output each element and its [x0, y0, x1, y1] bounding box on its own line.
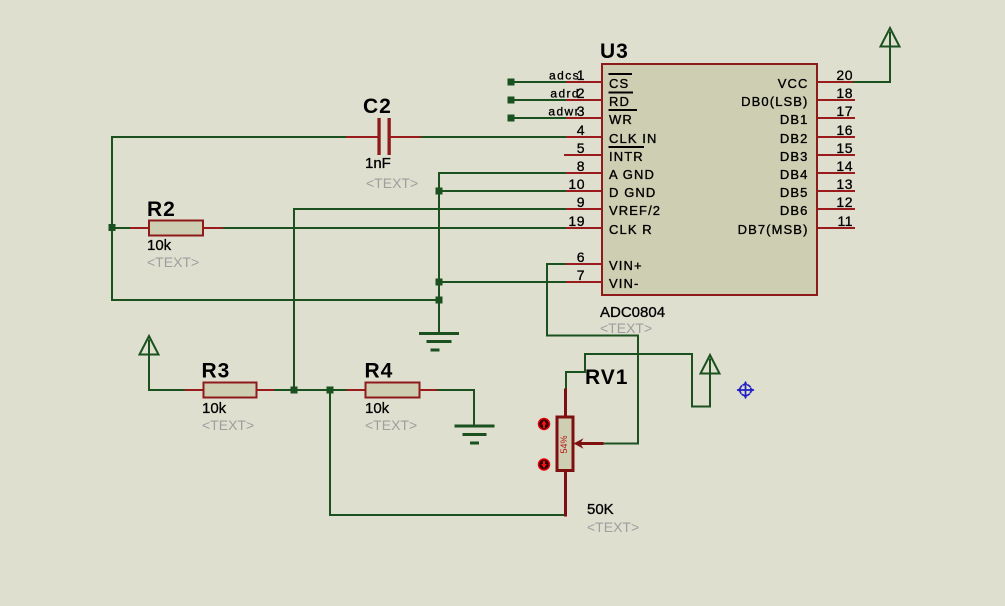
- wire VREF/2 pin 9 to resistor divider: [294, 209, 565, 390]
- svg-text:R2: R2: [147, 198, 176, 221]
- U3 pin 12 DB6 stub: [818, 208, 854, 210]
- svg-text:DB3: DB3: [780, 149, 809, 164]
- svg-text:20: 20: [836, 67, 853, 83]
- U3 pin name INTR with overline: [609, 147, 644, 164]
- U3 pin 18 DB0 stub: [818, 99, 854, 101]
- wire R2 left to rail: [112, 227, 131, 229]
- resistor R4: [348, 383, 439, 398]
- power symbol +V at R3: [140, 336, 159, 390]
- capacitor C2: [347, 118, 420, 155]
- svg-text:WR: WR: [609, 112, 633, 127]
- svg-text:ADC0804: ADC0804: [600, 304, 665, 321]
- terminal square adrd: [508, 97, 515, 104]
- svg-text:DB6: DB6: [780, 203, 809, 218]
- IC U3 body (ADC0804): [602, 64, 817, 295]
- svg-text:VIN-: VIN-: [609, 276, 639, 291]
- wire adwr to pin 3: [511, 117, 565, 119]
- svg-text:50K: 50K: [587, 501, 614, 518]
- wire R4 right to ground: [438, 390, 474, 426]
- wire left vertical rail x=112: [111, 137, 113, 300]
- wire power to R3 left: [149, 389, 186, 391]
- svg-text:D GND: D GND: [609, 185, 656, 200]
- svg-text:15: 15: [836, 140, 853, 156]
- wire RV1 top to power: [566, 354, 710, 407]
- ground symbol under rail x=439: [421, 334, 458, 351]
- svg-text:10k: 10k: [147, 237, 172, 254]
- svg-text:R3: R3: [202, 360, 231, 383]
- U3 pin 19 CLK R stub: [565, 227, 601, 229]
- RV1 wiper arrow: [574, 438, 603, 448]
- wire VCC pin 20 to power: [854, 33, 890, 83]
- svg-text:RD: RD: [609, 94, 630, 109]
- U3 pin name CS with overline: [609, 74, 631, 91]
- svg-text:INTR: INTR: [609, 149, 644, 164]
- svg-text:1nF: 1nF: [365, 155, 391, 172]
- terminal square adcs: [508, 79, 515, 86]
- wire A GND pin 8 to ground rail: [439, 173, 565, 191]
- U3 pin 8 A GND stub: [565, 172, 601, 174]
- U3 pin 2 RD stub: [565, 99, 601, 101]
- wire R3 right to R4 left: [275, 389, 348, 391]
- svg-text:18: 18: [836, 85, 853, 101]
- U3 pin 11 DB7 stub: [818, 227, 854, 229]
- svg-text:19: 19: [568, 213, 585, 229]
- wire D GND pin 10 to ground rail: [439, 190, 565, 192]
- svg-text:17: 17: [836, 103, 853, 119]
- svg-text:U3: U3: [600, 40, 629, 63]
- origin marker (blue crosshair): [738, 383, 753, 398]
- svg-text:adwr: adwr: [548, 105, 580, 119]
- potentiometer RV1: [557, 390, 573, 515]
- svg-text:54%: 54%: [559, 435, 569, 453]
- svg-text:CS: CS: [609, 76, 629, 91]
- svg-text:DB5: DB5: [780, 185, 809, 200]
- junction RV1 bottom tap at divider: [327, 387, 334, 394]
- junction VREF tap at divider: [291, 387, 298, 394]
- terminal square adwr: [508, 115, 515, 122]
- svg-text:A GND: A GND: [609, 167, 655, 182]
- resistor R3: [186, 383, 275, 398]
- svg-text:8: 8: [577, 158, 585, 174]
- svg-text:<TEXT>: <TEXT>: [600, 320, 652, 336]
- U3 pin 1 CS stub: [565, 81, 601, 83]
- U3 pin 14 DB4 stub: [818, 172, 854, 174]
- svg-text:VCC: VCC: [778, 76, 809, 91]
- svg-text:C2: C2: [363, 95, 392, 118]
- svg-text:adcs: adcs: [549, 69, 580, 83]
- svg-text:10k: 10k: [202, 400, 227, 417]
- junction at VIN- rail: [436, 279, 443, 286]
- wire adcs to pin 1: [511, 81, 565, 83]
- ground symbol at R4: [456, 426, 493, 443]
- RV1 decrement button: [539, 459, 550, 470]
- svg-text:<TEXT>: <TEXT>: [587, 519, 639, 535]
- junction at bottom horizontal rail: [436, 297, 443, 304]
- junction at D GND rail: [436, 188, 443, 195]
- svg-text:14: 14: [836, 158, 853, 174]
- svg-text:CLK IN: CLK IN: [609, 131, 658, 146]
- svg-text:VIN+: VIN+: [609, 258, 643, 273]
- wire C2 left plate to left vertical rail: [112, 136, 347, 138]
- svg-text:16: 16: [836, 122, 853, 138]
- svg-text:RV1: RV1: [585, 366, 628, 389]
- svg-text:13: 13: [836, 176, 853, 192]
- resistor R2: [131, 221, 222, 236]
- svg-text:6: 6: [577, 249, 585, 265]
- U3 pin 16 DB2 stub: [818, 136, 854, 138]
- U3 pin 17 DB1 stub: [818, 117, 854, 119]
- wire VIN+ pin 6 down to RV1 wiper: [547, 264, 638, 444]
- U3 pin 5 INTR stub: [565, 154, 601, 156]
- svg-text:7: 7: [577, 267, 585, 283]
- U3 pin 20 VCC stub: [818, 81, 854, 83]
- U3 pin 9 VREF/2 stub: [565, 208, 601, 210]
- wire bottom horizontal y=300 to ground rail: [112, 299, 439, 301]
- U3 pin 3 WR stub: [565, 117, 601, 119]
- wire CLK R pin 19 to R2: [222, 227, 565, 229]
- power symbol VCC: [881, 28, 900, 47]
- svg-text:CLK R: CLK R: [609, 222, 653, 237]
- svg-text:5: 5: [577, 140, 585, 156]
- svg-text:adrd: adrd: [550, 87, 580, 101]
- RV1 increment button: [539, 419, 550, 430]
- svg-text:12: 12: [836, 194, 853, 210]
- svg-text:<TEXT>: <TEXT>: [366, 175, 418, 191]
- svg-text:11: 11: [837, 213, 853, 229]
- svg-text:R4: R4: [365, 360, 394, 383]
- svg-text:DB2: DB2: [780, 131, 809, 146]
- svg-text:DB0(LSB): DB0(LSB): [741, 94, 808, 109]
- svg-text:VREF/2: VREF/2: [609, 203, 661, 218]
- svg-text:<TEXT>: <TEXT>: [202, 417, 254, 433]
- svg-text:DB7(MSB): DB7(MSB): [738, 222, 809, 237]
- svg-text:<TEXT>: <TEXT>: [147, 254, 199, 270]
- U3 pin 7 VIN- stub: [565, 281, 601, 283]
- U3 pin 13 DB5 stub: [818, 190, 854, 192]
- svg-text:10: 10: [568, 176, 585, 192]
- svg-text:DB4: DB4: [780, 167, 809, 182]
- wire C2 right plate to pin 4 CLK IN: [420, 136, 565, 138]
- power symbol +V at RV1: [701, 355, 720, 374]
- wire ground rail vertical x=439: [438, 191, 440, 333]
- junction R2 left at rail x=112: [109, 224, 116, 231]
- U3 pin 4 CLK IN stub: [565, 136, 601, 138]
- wire adrd to pin 2: [511, 99, 565, 101]
- svg-text:4: 4: [577, 122, 585, 138]
- svg-text:10k: 10k: [365, 400, 390, 417]
- U3 pin 6 VIN+ stub: [565, 263, 601, 265]
- U3 pin name WR with overline: [609, 110, 636, 127]
- svg-text:9: 9: [577, 194, 585, 210]
- U3 pin 15 DB3 stub: [818, 154, 854, 156]
- svg-text:DB1: DB1: [780, 112, 809, 127]
- U3 pin 10 D GND stub: [565, 190, 601, 192]
- wire VIN- pin 7 to ground rail: [439, 281, 565, 283]
- svg-text:<TEXT>: <TEXT>: [365, 417, 417, 433]
- U3 pin name RD with overline: [609, 93, 632, 110]
- wire RV1 bottom tap down and right: [330, 390, 566, 515]
